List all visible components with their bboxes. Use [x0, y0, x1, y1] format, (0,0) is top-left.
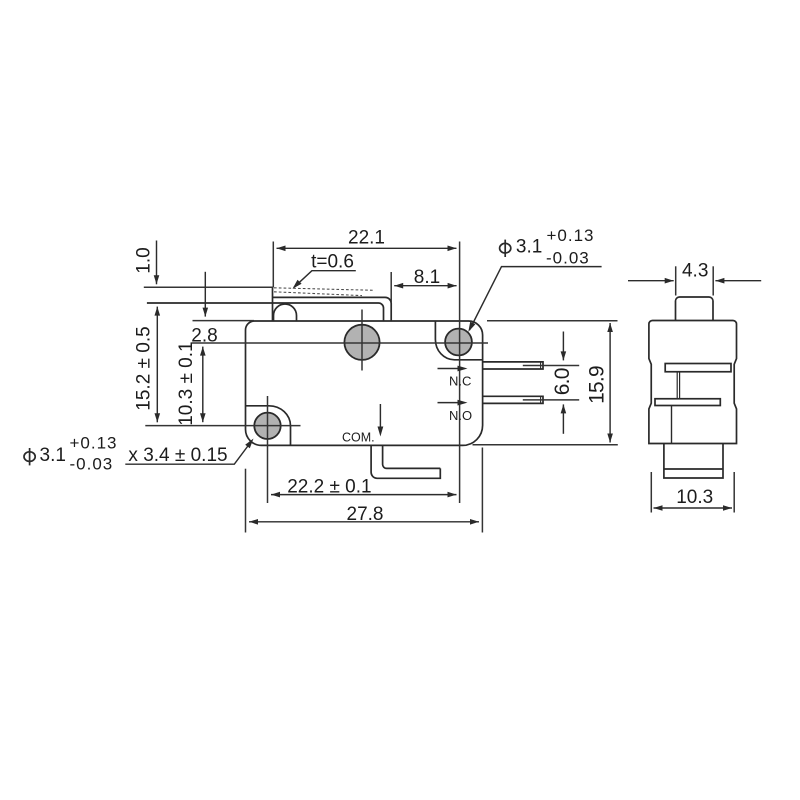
svg-text:3.1: 3.1	[40, 445, 66, 466]
svg-text:-0.03: -0.03	[546, 248, 590, 267]
svg-text:N.O: N.O	[449, 408, 472, 423]
svg-text:-0.03: -0.03	[70, 455, 114, 474]
svg-text:8.1: 8.1	[414, 267, 440, 288]
svg-text:22.2 ± 0.1: 22.2 ± 0.1	[287, 476, 371, 497]
svg-text:N.C: N.C	[449, 373, 471, 388]
svg-text:15.9: 15.9	[585, 366, 608, 404]
svg-text:1.0: 1.0	[134, 247, 155, 273]
svg-text:10.3: 10.3	[676, 487, 713, 508]
svg-text:+0.13: +0.13	[70, 434, 118, 453]
svg-text:x 3.4 ± 0.15: x 3.4 ± 0.15	[128, 445, 227, 466]
svg-text:22.1: 22.1	[348, 227, 385, 248]
svg-text:t=0.6: t=0.6	[311, 251, 354, 272]
svg-text:10.3 ± 0.1: 10.3 ± 0.1	[176, 341, 197, 425]
svg-text:15.2 ± 0.5: 15.2 ± 0.5	[134, 326, 155, 410]
svg-text:6.0: 6.0	[551, 368, 574, 395]
svg-text:COM.: COM.	[342, 430, 375, 444]
svg-text:+0.13: +0.13	[547, 226, 595, 245]
svg-text:4.3: 4.3	[682, 260, 708, 281]
svg-text:3.1: 3.1	[516, 237, 542, 258]
svg-text:27.8: 27.8	[347, 504, 384, 525]
